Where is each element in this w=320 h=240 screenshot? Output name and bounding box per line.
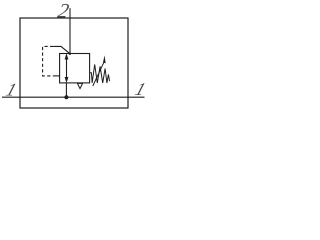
drain triangle	[77, 83, 82, 88]
spring	[90, 64, 110, 83]
pilot line solid part (diagonal + top run)	[53, 46, 70, 53]
wire: valve outlet to port 1	[65, 83, 67, 97]
svg-text:1: 1	[133, 79, 148, 98]
pilot line solid stub into valve	[53, 75, 60, 77]
spring adjustment arrow head	[103, 55, 106, 63]
svg-text:2: 2	[56, 0, 71, 22]
flow arrow shaft inside valve	[66, 57, 68, 80]
junction node dot	[64, 95, 68, 99]
pilot line dashed part	[43, 46, 54, 76]
wire: port 1 horizontal line	[2, 96, 145, 98]
junction knot at valve top port	[69, 53, 71, 55]
flow arrow head up	[65, 53, 69, 59]
svg-text:1: 1	[4, 80, 19, 99]
wire: port 2 vertical line	[69, 8, 71, 54]
spring adjustment arrow shaft	[93, 62, 104, 86]
valve body square (envelope)	[60, 54, 90, 83]
outer enclosure box	[20, 18, 128, 108]
flow arrow head down	[65, 77, 69, 83]
